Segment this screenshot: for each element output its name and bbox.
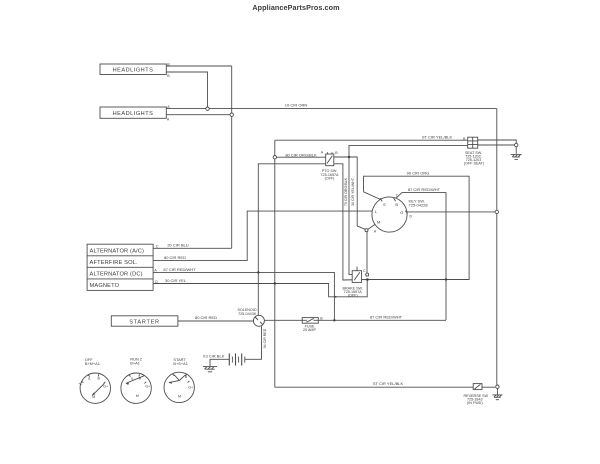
svg-text:D: D — [410, 214, 413, 218]
svg-text:80 CIR ORG/BLK: 80 CIR ORG/BLK — [285, 152, 317, 157]
key switch body — [372, 197, 407, 232]
wire headlight2 bottom pin to node — [166, 114, 230, 116]
svg-text:+L: +L — [78, 382, 82, 386]
alternator/engine connector stack — [87, 244, 153, 290]
svg-text:MAGNETO: MAGNETO — [90, 283, 120, 289]
wire ST CIR YEL/BLK long vertical — [274, 140, 276, 387]
wire starter to solenoid — [178, 320, 254, 322]
node open circle brake C — [366, 273, 369, 276]
svg-text:87 CIR RED/WHT: 87 CIR RED/WHT — [408, 187, 441, 192]
wire seat ground stub — [515, 147, 517, 154]
svg-text:AppliancePartsPros.com: AppliancePartsPros.com — [252, 3, 339, 12]
wire key switch A junction down to brake C — [366, 232, 368, 274]
key position diagram START circle — [164, 372, 194, 402]
svg-text:(OFF): (OFF) — [348, 293, 358, 297]
node dot fuse brake junction — [333, 319, 335, 321]
node dot red/wht pto feed — [257, 271, 259, 273]
node open circle reverse ground — [496, 385, 499, 388]
brake switch plunger — [356, 267, 358, 271]
svg-text:M: M — [178, 394, 181, 398]
svg-text:M: M — [92, 395, 95, 399]
svg-text:90 CIR ORG: 90 CIR ORG — [407, 171, 430, 176]
node open circle headlight2 junction — [230, 113, 233, 116]
battery B1 — [228, 353, 230, 365]
svg-text:M: M — [136, 394, 139, 398]
wire seat switch right pins to ground — [478, 140, 517, 143]
wire fuse B to vertical junctions — [318, 319, 446, 321]
svg-text:D: D — [155, 280, 158, 284]
wire seat switch lower pin vertical to brake switch — [349, 145, 468, 274]
svg-text:(IN FWD): (IN FWD) — [467, 401, 483, 405]
wire battery minus to ground — [210, 359, 229, 366]
wire headlight1 bottom pin down to node — [166, 72, 207, 107]
svg-text:94 CIR RED: 94 CIR RED — [263, 328, 267, 348]
svg-text:AFTERFIRE SOL.: AFTERFIRE SOL. — [90, 260, 139, 266]
svg-text:C: C — [156, 245, 159, 249]
wire ST CIR YEL/BLK top horizontal to seat switch — [275, 139, 468, 141]
headlights connector 1 — [100, 64, 166, 75]
wire reverse ground stub — [496, 389, 498, 395]
svg-text:ST CIR YEL/BLK: ST CIR YEL/BLK — [373, 381, 404, 386]
reverse switch lever — [475, 384, 481, 389]
solenoid body — [253, 315, 264, 326]
node dot org red/wht crossing — [445, 278, 447, 280]
ground seat switch — [511, 154, 522, 156]
key position diagram RUN2 circle — [121, 373, 151, 403]
ground battery — [203, 366, 217, 368]
brake switch lever — [354, 272, 360, 280]
svg-text:B: B — [395, 202, 398, 207]
svg-text:ST CIR YEL/BLK: ST CIR YEL/BLK — [422, 135, 453, 140]
svg-text:HEADLIGHTS: HEADLIGHTS — [113, 111, 154, 117]
wire vertical 20 CIR BLU headlights feed — [231, 66, 233, 248]
svg-text:80 CIR RED: 80 CIR RED — [164, 255, 186, 260]
svg-text:20 CIR BLU: 20 CIR BLU — [167, 243, 188, 248]
node dot pto B seat junction — [348, 156, 350, 158]
key switch pin tick S — [380, 198, 382, 201]
svg-text:G+: G+ — [103, 385, 108, 389]
starter box — [111, 316, 178, 326]
brake switch body — [352, 271, 361, 283]
node open circle key A junction — [365, 229, 368, 232]
svg-text:87 CIR RED/WHT: 87 CIR RED/WHT — [370, 314, 403, 319]
svg-text:ALTERNATOR (A/C): ALTERNATOR (A/C) — [90, 248, 145, 254]
node open circle PTO feed — [273, 156, 276, 159]
svg-text:725-04228: 725-04228 — [409, 203, 429, 208]
wire key switch S diagonal — [364, 192, 381, 200]
wire reverse switch to ground node — [482, 386, 495, 388]
wire 20 CIR BLU horizontal from alternator AC — [153, 247, 232, 249]
wire key switch B/C to 87 CIR RED/WHT vertical — [395, 193, 446, 320]
svg-text:30 CIR YEL: 30 CIR YEL — [165, 278, 187, 283]
svg-text:B+S+A1: B+S+A1 — [173, 361, 188, 366]
wire 90 CIR ORG loop key switch S to brake switch — [364, 176, 470, 279]
svg-text:S: S — [383, 202, 386, 207]
svg-text:(OFF SEAT): (OFF SEAT) — [464, 162, 484, 166]
PTO switch stub B — [331, 152, 333, 154]
wire afterfire sol to key switch L — [153, 211, 372, 261]
wire PTO lower feed — [258, 164, 367, 315]
svg-text:STARTER: STARTER — [129, 319, 160, 325]
svg-text:C: C — [396, 193, 399, 197]
svg-text:70 CIR ORG/BLK: 70 CIR ORG/BLK — [344, 177, 348, 206]
svg-text:725-04439: 725-04439 — [238, 312, 256, 316]
node open circle headlight junction — [206, 107, 209, 110]
wire 10 CIR ORN headlights to right side — [166, 108, 497, 110]
wire solenoid bottom to battery plus — [245, 326, 262, 359]
svg-text:G: G — [400, 210, 403, 215]
svg-text:B+A1: B+A1 — [130, 360, 140, 365]
PTO switch stub A — [327, 152, 329, 154]
node dot yel st junction — [274, 282, 276, 284]
key switch lever M to A node — [367, 224, 376, 230]
seat switch connector — [468, 137, 478, 148]
wire 87 CIR RED/WHT from alternator DC — [153, 272, 334, 320]
wire ST CIR YEL/BLK bottom horizontal to reverse switch — [275, 386, 473, 388]
wire key switch G to right bus — [407, 211, 495, 213]
reverse switch body — [473, 384, 482, 390]
node open circle seat ground — [515, 143, 518, 146]
node open circle key G bus — [495, 210, 498, 213]
key switch pin tick B — [394, 198, 396, 201]
wire PTO switch B to key switch A leg — [334, 157, 366, 230]
svg-text:B+M+A1: B+M+A1 — [85, 361, 100, 366]
arrow crossover on red/wht vertical — [335, 296, 338, 298]
fuse body — [302, 318, 318, 324]
svg-text:(OFF): (OFF) — [325, 176, 335, 180]
wire right bus vertical — [496, 109, 498, 385]
svg-text:C: C — [363, 269, 366, 273]
svg-text:ALTERNATOR (DC): ALTERNATOR (DC) — [90, 271, 143, 277]
svg-text:10 CIR ORN: 10 CIR ORN — [285, 103, 308, 108]
wire solenoid to fuse to red/wht vertical — [264, 319, 302, 321]
PTO switch body — [326, 154, 334, 166]
svg-text:80 CIR RED: 80 CIR RED — [195, 315, 217, 320]
wire 30 CIR YEL from magneto — [153, 280, 367, 297]
headlights connector 2 — [100, 107, 166, 118]
svg-text:HEADLIGHTS: HEADLIGHTS — [113, 68, 154, 74]
svg-text:M: M — [377, 219, 380, 224]
key switch pin tick G — [405, 211, 407, 214]
svg-text:87 CIR RED/WHT: 87 CIR RED/WHT — [163, 267, 196, 272]
ground reverse switch — [492, 394, 502, 396]
svg-text:G+: G+ — [188, 385, 193, 389]
key position diagram OFF circle — [80, 373, 110, 403]
svg-text:30 CIR YEL/WHT: 30 CIR YEL/WHT — [351, 177, 355, 206]
svg-text:G+: G+ — [145, 385, 150, 389]
svg-text:20 AMP: 20 AMP — [303, 328, 316, 332]
wire seat switch lower right pin — [478, 144, 515, 146]
wire 80 CIR ORG/BLK to PTO switch A — [277, 156, 326, 158]
node dot brake lower — [366, 278, 369, 281]
svg-text:X3 CIR BLK: X3 CIR BLK — [203, 353, 225, 358]
PTO switch lever — [327, 156, 332, 164]
wire headlight1 top pin to vertical — [166, 65, 231, 67]
